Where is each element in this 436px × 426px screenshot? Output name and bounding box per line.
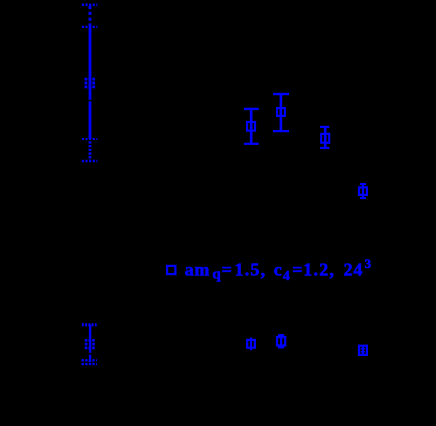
P1 inner bottom dashed cap	[82, 138, 97, 140]
data point P2 (x=251.2)	[244, 109, 259, 144]
B4 inner top cap	[361, 348, 365, 350]
P5 top cap	[360, 183, 366, 185]
data point B2 (x=251.05, bottom row)	[247, 338, 255, 351]
P2 open square marker	[247, 122, 255, 131]
P4 top cap	[320, 126, 329, 128]
P1 solid segment lower	[89, 101, 92, 139]
B1 inner bottom dashed cap	[82, 359, 97, 361]
P5 error line	[362, 184, 364, 198]
P1 upper dotted segment	[89, 6, 92, 27]
B3 open square marker	[277, 337, 285, 345]
B1 dotted open square marker	[85, 339, 95, 349]
data point B3 (x=281.1, bottom row)	[277, 334, 285, 348]
P1 outer top dashed cap	[82, 4, 97, 7]
B1 solid error line lower	[89, 355, 91, 360]
legend open square marker	[167, 266, 175, 274]
P1 solid segment upper	[89, 27, 92, 100]
data point P5 (x=363.0)	[359, 184, 367, 198]
B3 error line	[280, 334, 282, 348]
B2 error line	[250, 338, 252, 351]
data point P1 error bars (x=89.9, top)	[82, 5, 97, 161]
data point B4 (x=362.9, bottom row)	[359, 346, 367, 355]
data point P3 (x=280.9)	[273, 94, 289, 131]
P1 outer bottom dashed cap	[82, 160, 97, 163]
P5 open square marker	[359, 187, 367, 195]
B3 bottom cap	[278, 346, 284, 348]
P2 error line	[250, 109, 253, 144]
P1 lower dotted segment	[89, 141, 92, 160]
P3 top cap	[273, 93, 289, 95]
P3 error line	[280, 94, 283, 131]
P5 bottom cap	[360, 197, 366, 199]
B4 open square marker	[359, 346, 367, 355]
P3 open square marker	[277, 108, 285, 116]
B1 solid error line upper	[89, 324, 91, 352]
B1 outer bottom dashed cap	[82, 363, 97, 365]
data point B1 error bars (x=90.1, bottom row)	[82, 324, 97, 364]
B1 top dashed cap	[82, 323, 97, 326]
P4 error line	[324, 127, 327, 148]
P4 bottom cap	[320, 147, 329, 149]
P2 top cap	[244, 108, 259, 110]
data point P4 (x=325.2)	[320, 127, 329, 148]
P2 bottom cap	[244, 143, 259, 145]
P1 dotted open square marker	[85, 78, 96, 89]
legend text am_q=1.5, c_4=1.2, 24^3	[185, 256, 372, 284]
P4 open square marker	[321, 134, 329, 143]
B1 lower dotted segment	[89, 360, 91, 364]
B2 open square marker	[247, 340, 255, 348]
P3 bottom cap	[273, 130, 289, 132]
B3 top cap	[278, 334, 284, 336]
P1 inner top dashed cap	[82, 26, 97, 28]
B4 error line	[362, 347, 364, 355]
B4 inner bottom cap	[361, 351, 365, 353]
